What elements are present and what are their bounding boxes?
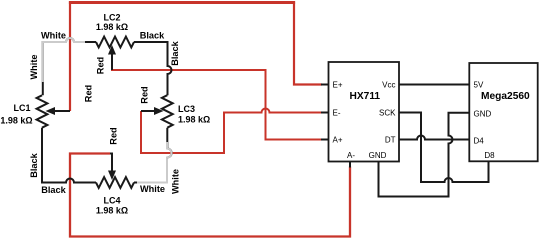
label LC3 value xyxy=(178,104,210,125)
svg-text:A+: A+ xyxy=(333,135,343,144)
label LC4 value xyxy=(96,196,128,216)
wire: SCK to D8 (right, down, right with hop at x=448.5, up to Mega bottom) xyxy=(399,113,489,183)
wiper arrow of LC2 (points up) xyxy=(108,45,116,70)
resistor LC1 (vertical zigzag) xyxy=(37,95,48,127)
resistor LC2 (horizontal zigzag) xyxy=(96,37,134,48)
wire: Vcc to 5V xyxy=(399,84,469,86)
resistor LC3 (vertical zigzag) xyxy=(162,95,173,128)
svg-text:D4: D4 xyxy=(474,136,485,145)
wire: white (gray) overlay of LC2-left/LC1-top wire xyxy=(43,38,85,82)
wiper arrow of LC3 (points right, red tail to x=141) xyxy=(141,107,164,115)
svg-text:Vcc: Vcc xyxy=(382,80,395,89)
wire: white wire LC2-left to LC1-top (black base, hop over red at x=70) xyxy=(43,38,96,95)
svg-text:Black: Black xyxy=(29,152,39,177)
svg-text:5V: 5V xyxy=(474,80,484,89)
resistor LC4 (horizontal zigzag) xyxy=(96,177,134,188)
wire: HX711 A- black pin stub xyxy=(349,162,351,168)
svg-text:SCK: SCK xyxy=(379,108,396,117)
svg-text:Red: Red xyxy=(96,57,106,74)
svg-text:Red: Red xyxy=(140,86,150,103)
wire: red net E- (LC3 wiper to HX711 E-) with hops at x=167 and x=265.5 xyxy=(141,109,322,154)
svg-text:1.98 kΩ: 1.98 kΩ xyxy=(96,22,128,32)
svg-text:LC4: LC4 xyxy=(103,196,120,206)
svg-text:LC2: LC2 xyxy=(103,13,120,23)
wire: red top bus (thick segment of net E+) xyxy=(69,1,295,4)
svg-text:LC1: LC1 xyxy=(13,103,30,113)
pin stub E+ of HX711 (black) xyxy=(321,84,329,86)
wire: red net A+ (LC2 wiper to HX711 A+) xyxy=(112,69,322,140)
svg-text:A-: A- xyxy=(347,151,355,160)
svg-text:GND: GND xyxy=(369,151,387,160)
wire: red net A- (LC4 wiper left, bottom bus, up to HX711 A-) xyxy=(70,154,350,237)
wire: red net E+ (LC1 wiper, top bus, down to HX711 E+) xyxy=(70,3,322,112)
svg-text:Red: Red xyxy=(109,127,119,144)
svg-text:HX711: HX711 xyxy=(350,91,381,102)
wire: DT to D4 with hops at x=421 and x=448.5 xyxy=(399,136,469,140)
wiper arrow of LC1 (points left, red tail to x=70) xyxy=(46,107,71,115)
label LC2 value xyxy=(96,13,128,33)
wiper arrow of LC4 (points down, red tail up to y=153) xyxy=(108,154,116,181)
svg-text:White: White xyxy=(171,169,181,194)
wire: white wire LC3-bottom to LC4-right (black base, hop over red at y=153) xyxy=(134,128,172,183)
svg-text:Black: Black xyxy=(170,40,180,65)
svg-text:D8: D8 xyxy=(484,151,495,160)
svg-text:1.98 kΩ: 1.98 kΩ xyxy=(178,115,210,125)
svg-text:White: White xyxy=(29,54,39,79)
wire: black wire LC2-right down to LC3-top, hop over red at y=70 xyxy=(134,42,172,95)
label LC1 value xyxy=(0,103,32,126)
svg-text:White: White xyxy=(41,31,66,41)
svg-text:LC3: LC3 xyxy=(178,104,195,114)
svg-text:GND: GND xyxy=(474,109,492,118)
svg-text:Black: Black xyxy=(140,31,165,41)
svg-text:E-: E- xyxy=(333,108,341,117)
svg-text:Mega2560: Mega2560 xyxy=(481,91,530,102)
wire: black wire LC1-bottom to LC4-left, hop over red at x=70 xyxy=(42,128,96,183)
svg-text:Black: Black xyxy=(41,185,66,195)
svg-text:1.98 kΩ: 1.98 kΩ xyxy=(96,206,128,216)
IC U2: Mega2560 board box xyxy=(469,63,537,161)
svg-text:White: White xyxy=(140,184,165,194)
wire: Mega GND to HX711 GND xyxy=(379,113,470,197)
pin stub E- of HX711 (black) xyxy=(321,112,329,114)
svg-text:Red: Red xyxy=(84,85,94,102)
pin stub A+ of HX711 (black) xyxy=(321,139,329,141)
IC U1: HX711 module box xyxy=(329,62,400,162)
svg-text:1.98 kΩ: 1.98 kΩ xyxy=(0,116,32,126)
wire: white (gray) overlay LC3-bottom/LC4-right xyxy=(137,142,172,183)
svg-text:DT: DT xyxy=(385,135,396,144)
svg-text:E+: E+ xyxy=(333,80,343,89)
